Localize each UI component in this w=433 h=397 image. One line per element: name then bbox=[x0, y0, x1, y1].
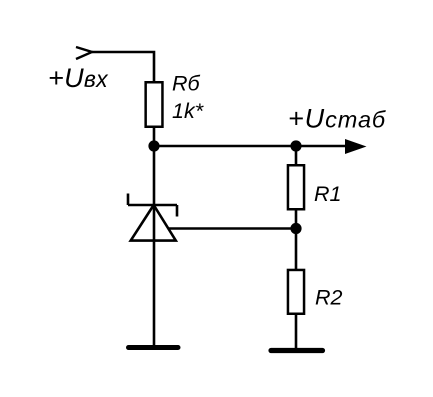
svg-text:1k*: 1k* bbox=[172, 99, 204, 123]
wire node B to R1 bbox=[295, 146, 298, 165]
node B (top of R1) bbox=[290, 140, 301, 151]
wire input to resistor Rb bbox=[92, 52, 154, 81]
wire R2 to ground bbox=[295, 315, 298, 349]
svg-text:Rб: Rб bbox=[172, 72, 201, 96]
resistor Rб bbox=[146, 82, 163, 127]
wire node A to output arrow bbox=[154, 145, 346, 148]
adjustable zener (TL431) cathode bar bbox=[128, 204, 177, 207]
ground (right) bbox=[271, 348, 323, 353]
svg-text:+Uстаб: +Uстаб bbox=[288, 104, 386, 134]
input terminal +Uvx bbox=[76, 47, 92, 59]
svg-text:R2: R2 bbox=[315, 286, 343, 310]
svg-text:R1: R1 bbox=[314, 182, 341, 206]
wire node C to regulator reference bbox=[168, 227, 296, 230]
node A (output of Rb) bbox=[148, 140, 159, 151]
wire R1 to R2 bbox=[295, 211, 298, 270]
arrow output +Ustab bbox=[345, 139, 367, 154]
cathode bar left hook bbox=[127, 194, 130, 206]
cathode bar right hook bbox=[176, 205, 179, 217]
node C (divider midpoint) bbox=[290, 223, 301, 234]
resistor R2 bbox=[288, 270, 304, 314]
wire resistor Rb down to ground bbox=[153, 128, 156, 345]
resistor R1 bbox=[288, 165, 304, 209]
ground (left) bbox=[129, 345, 179, 350]
zener triangle bbox=[131, 205, 176, 241]
svg-text:+Uвх: +Uвх bbox=[48, 63, 109, 93]
